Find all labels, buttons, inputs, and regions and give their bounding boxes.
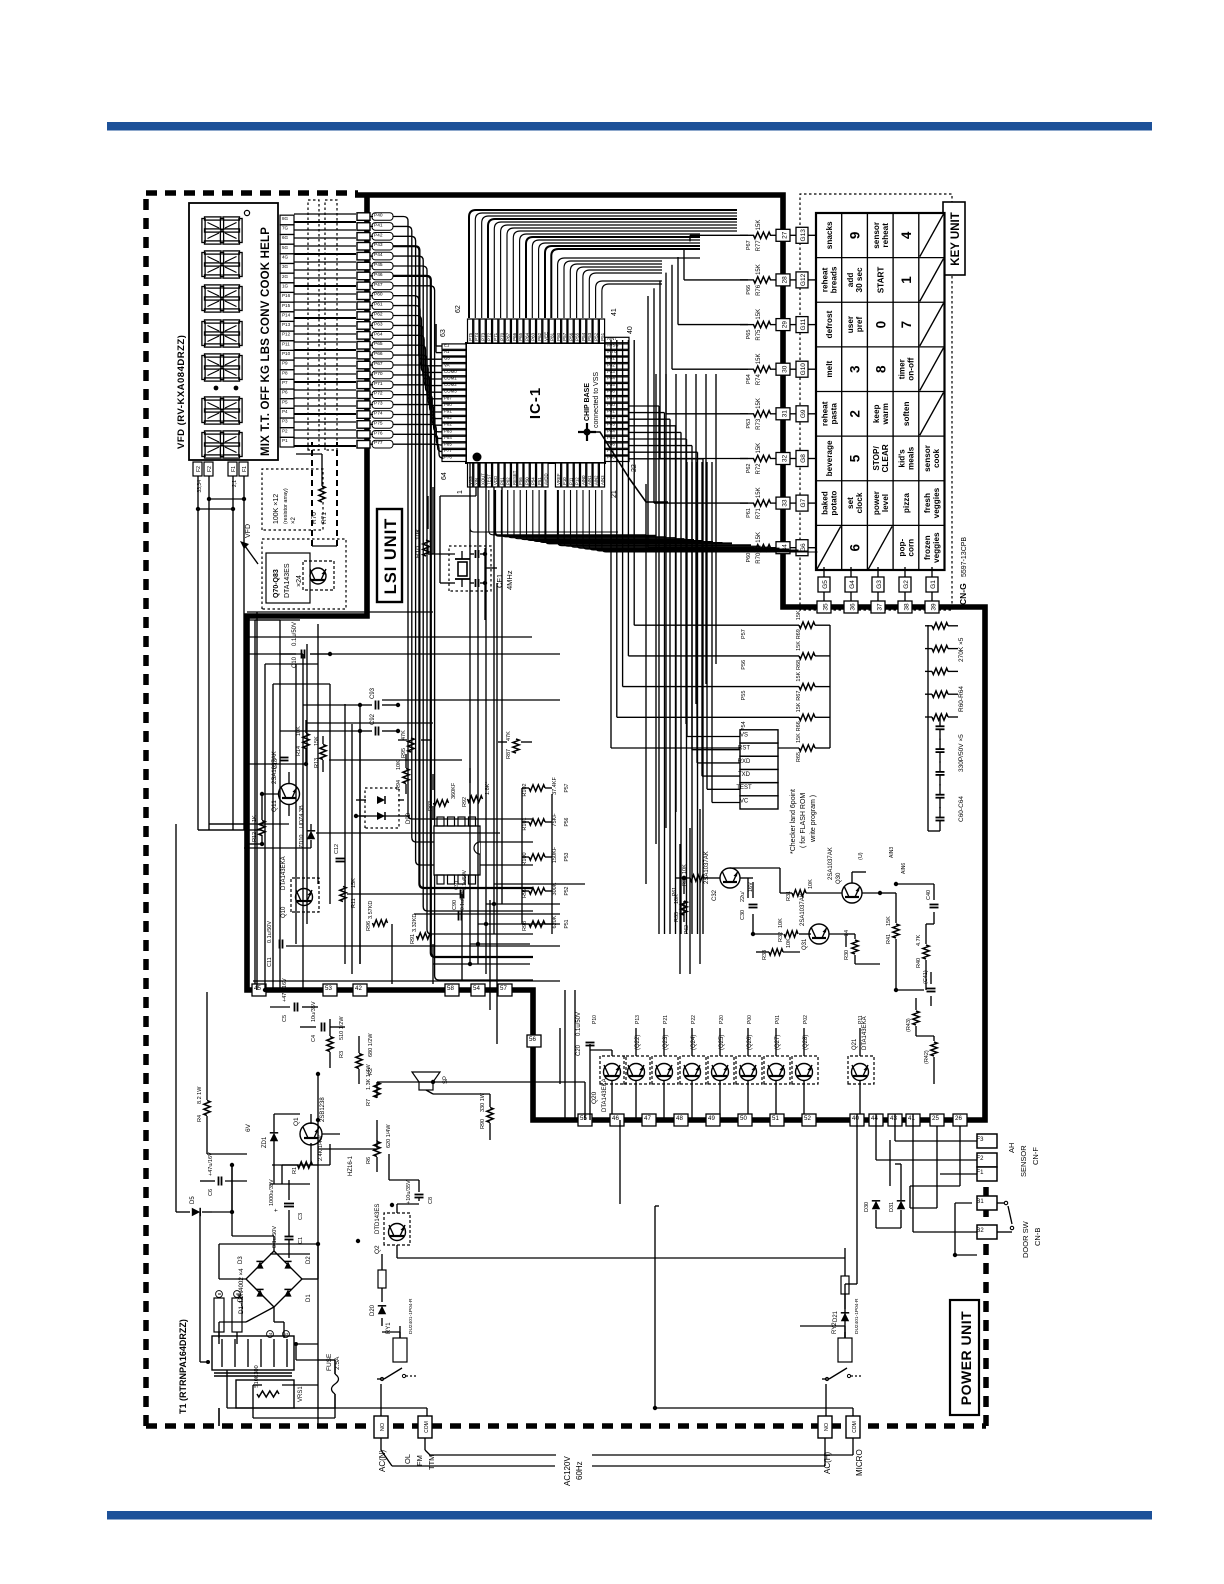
svg-text:10K: 10K: [778, 918, 784, 928]
svg-text:P64: P64: [374, 331, 383, 337]
svg-text:0.1u/50V: 0.1u/50V: [576, 1012, 582, 1036]
svg-text:15K: 15K: [756, 398, 762, 409]
svg-text:P8: P8: [282, 370, 288, 375]
resistor R34 10K: [690, 875, 704, 881]
svg-text:P6: P6: [282, 390, 288, 395]
key blank cell r5c8: [920, 214, 944, 257]
resistor R42: [931, 1042, 937, 1056]
svg-text:F1: F1: [242, 466, 248, 472]
dashed border left edge: [146, 1423, 986, 1429]
svg-text:150KF: 150KF: [552, 846, 558, 863]
connector NO box AC(N): [374, 1416, 388, 1438]
svg-text:R66: R66: [796, 721, 802, 731]
svg-text:R11: R11: [351, 898, 357, 908]
svg-text:R4: R4: [197, 1115, 203, 1122]
svg-text:P54: P54: [531, 477, 536, 485]
svg-text:0.1u/50V: 0.1u/50V: [267, 921, 273, 943]
sensor connector F3: [977, 1134, 997, 1148]
svg-text:pasta: pasta: [829, 403, 838, 425]
svg-text:MIX T.T. OFF KG LBS CONV COOK: MIX T.T. OFF KG LBS CONV COOK HELP: [260, 227, 272, 456]
svg-text:AVDD: AVDD: [543, 473, 548, 485]
svg-text:G4: G4: [849, 580, 856, 589]
svg-text:R67: R67: [796, 691, 802, 701]
wire Q27: [775, 1028, 777, 1056]
svg-text:P56: P56: [518, 477, 523, 485]
svg-text:10K: 10K: [682, 864, 688, 874]
svg-text:R35: R35: [674, 912, 680, 922]
svg-text:C40: C40: [926, 890, 932, 900]
speaker SP: [419, 1082, 433, 1090]
svg-text:C30: C30: [740, 910, 746, 920]
capacitor C11 0.1u/50V: [279, 940, 281, 949]
capacitor C3 1000u/35V: [284, 1206, 294, 1208]
svg-text:DTD143ES: DTD143ES: [375, 1204, 381, 1234]
wire filament F2: [197, 476, 199, 509]
svg-text:Q20: Q20: [591, 1091, 598, 1104]
svg-text:3.57KD: 3.57KD: [368, 901, 374, 919]
bus pin box 33: [776, 497, 790, 509]
svg-text:P20: P20: [719, 1015, 725, 1024]
svg-text:P65: P65: [518, 332, 523, 341]
svg-text:P55: P55: [575, 332, 580, 341]
svg-text:set: set: [846, 497, 855, 509]
sense connector G5: [818, 577, 830, 592]
VFD digit 5: [202, 287, 205, 311]
svg-text:15K: 15K: [756, 532, 762, 543]
svg-text:DTA143EKA: DTA143EKA: [602, 1078, 608, 1112]
svg-text:P12: P12: [575, 477, 580, 485]
strobe connector G11: [796, 317, 808, 333]
filter capacitor block C60-C64 330P/50V x5: [936, 820, 945, 822]
svg-text:C10: C10: [292, 656, 298, 668]
capacitor C1 0.1u/50V: [285, 1239, 294, 1241]
svg-text:63: 63: [440, 329, 447, 337]
long rails IC area to Q30 cluster: [655, 374, 657, 844]
svg-text:44: 44: [871, 1115, 878, 1122]
crystal load capacitors: [475, 579, 477, 587]
wire bundle mid horizontal rails: [306, 644, 308, 924]
svg-text:54: 54: [473, 985, 480, 992]
svg-text:41: 41: [908, 1115, 915, 1122]
transformer T1 primary winding: [212, 1336, 294, 1370]
dashed border: digital programmer circuit outline top edge: [143, 193, 149, 1426]
svg-text:8G: 8G: [282, 216, 289, 221]
resistor R40 4.7K: [923, 945, 929, 959]
svg-text:UDZ4.3B: UDZ4.3B: [299, 805, 305, 828]
resistor R93 360KF: [434, 800, 449, 806]
svg-text:C32: C32: [712, 889, 718, 901]
svg-text:defrost: defrost: [825, 310, 834, 338]
crystal wires to IC: [440, 582, 455, 584]
resistor R92 1.8K: [468, 796, 483, 802]
wire bundle connector pills to IC top pins: [393, 444, 444, 458]
svg-text:Q21: Q21: [852, 1038, 858, 1050]
svg-text:36: 36: [850, 603, 857, 611]
svg-text:G9: G9: [800, 409, 807, 418]
svg-text:R68: R68: [796, 660, 802, 670]
svg-text:AIN0: AIN0: [581, 475, 586, 485]
wire G9 column: [770, 413, 776, 415]
svg-text:P56: P56: [568, 332, 573, 341]
svg-text:P65: P65: [746, 330, 752, 340]
resistor R74 15K: [754, 366, 771, 372]
capacitor C41: [927, 991, 936, 993]
svg-text:P21: P21: [663, 1015, 669, 1024]
bus pin box 32: [776, 453, 790, 465]
svg-text:40: 40: [627, 326, 634, 334]
svg-text:41: 41: [611, 308, 618, 316]
svg-text:P52: P52: [594, 332, 599, 341]
svg-text:P75: P75: [374, 420, 383, 426]
wire jogs key columns to IC verticals: [648, 547, 748, 549]
svg-text:55: 55: [580, 1115, 587, 1122]
svg-text:P71: P71: [374, 381, 383, 387]
capacitor C6 47u/16V: [218, 1177, 220, 1186]
svg-text:P70: P70: [499, 332, 504, 341]
resistor R7 1.3K 1/4W: [374, 1083, 380, 1098]
svg-text:P02: P02: [803, 1015, 809, 1024]
svg-text:62: 62: [455, 305, 462, 313]
svg-text:AIN1: AIN1: [587, 475, 592, 485]
svg-text:G7: G7: [800, 498, 807, 507]
svg-text:30 sec: 30 sec: [855, 267, 864, 292]
svg-text:R7: R7: [366, 1099, 372, 1106]
svg-text:snacks: snacks: [825, 221, 834, 249]
door connector B2: [977, 1225, 997, 1239]
svg-text:COM: COM: [424, 1421, 430, 1433]
svg-text:P10: P10: [562, 477, 567, 485]
svg-text:7G: 7G: [282, 225, 289, 230]
svg-text:38: 38: [904, 603, 911, 611]
svg-text:add: add: [846, 273, 855, 288]
svg-text:P5: P5: [282, 399, 288, 404]
svg-text:OL: OL: [403, 1454, 412, 1464]
VFD pin wires to connector: [294, 445, 356, 447]
svg-text:51: 51: [772, 1115, 779, 1122]
svg-text:clock: clock: [855, 492, 864, 513]
svg-text:D1: D1: [306, 1294, 312, 1302]
wire G11 column: [770, 324, 776, 326]
long rails from VFD filament area down-left: [198, 829, 247, 831]
svg-text:SENSOR: SENSOR: [1019, 1145, 1028, 1177]
svg-text:F1: F1: [976, 1170, 984, 1176]
svg-text:fresh: fresh: [923, 493, 932, 513]
svg-text:meals: meals: [906, 446, 915, 470]
svg-text:R6: R6: [366, 1157, 372, 1164]
svg-text:R65: R65: [796, 752, 802, 762]
svg-text:620 1/4W: 620 1/4W: [386, 1124, 392, 1148]
svg-text:Q30: Q30: [836, 872, 842, 884]
svg-text:C11: C11: [267, 957, 273, 967]
svg-text:30: 30: [782, 365, 789, 373]
key blank cell r5c4: [920, 393, 944, 436]
wire bundle IC right pins to key section: [469, 210, 737, 318]
chip base cross symbol: [586, 423, 588, 441]
svg-text:10K: 10K: [786, 938, 792, 948]
Q20 Q21 wires: [611, 1050, 613, 1056]
svg-text:P47: P47: [374, 282, 383, 288]
bus pin box 34: [776, 542, 790, 554]
svg-text:Q31: Q31: [802, 938, 808, 950]
svg-text:P11: P11: [282, 341, 290, 346]
capacitor C10 0.1u/50V: [301, 650, 303, 659]
svg-text:P57: P57: [564, 783, 570, 792]
svg-text:P66: P66: [746, 285, 752, 295]
svg-text:C90: C90: [452, 900, 458, 910]
svg-text:DU2401-1P04-R: DU2401-1P04-R: [854, 1298, 860, 1334]
svg-text:2G: 2G: [282, 274, 289, 279]
svg-text:D5: D5: [190, 1196, 196, 1204]
svg-text:R94: R94: [396, 780, 402, 790]
svg-text:P81: P81: [550, 332, 555, 341]
svg-text:15K: 15K: [796, 641, 802, 651]
svg-text:C6: C6: [208, 1189, 214, 1196]
resistor R3 510 1/2W: [327, 1037, 333, 1052]
VFD digit 6: [202, 253, 205, 277]
wire stubs connector to pills: [370, 443, 373, 445]
svg-text:4MHz: 4MHz: [505, 570, 514, 590]
svg-text:6V: 6V: [245, 1123, 252, 1132]
svg-text:42: 42: [355, 985, 362, 992]
transistor Q28 DTA143EKA: [792, 1056, 818, 1084]
resistor R30 24: [852, 940, 858, 954]
svg-text:P80: P80: [556, 332, 561, 341]
svg-text:P46: P46: [374, 272, 383, 278]
svg-text:R76: R76: [756, 284, 762, 296]
svg-text:P60: P60: [746, 553, 752, 563]
svg-text:47K: 47K: [506, 731, 512, 741]
wires resistor cap rows: [928, 830, 940, 832]
svg-text:D21: D21: [833, 1310, 839, 1322]
svg-text:4G: 4G: [282, 254, 289, 259]
relay RY1 coil box: [393, 1338, 407, 1362]
transistor Q32 2SA1037AK: [720, 868, 740, 888]
svg-text:3G: 3G: [282, 264, 289, 269]
svg-text:F3: F3: [976, 1137, 984, 1143]
svg-text:P4: P4: [282, 409, 288, 414]
svg-text:R73: R73: [756, 418, 762, 430]
svg-text:HZ16-1: HZ16-1: [348, 1155, 354, 1176]
transistor Q21 DTA143EKA: [848, 1056, 874, 1084]
svg-text:P67: P67: [374, 361, 383, 367]
transformer core: [214, 1375, 292, 1377]
bus pin box 28: [776, 274, 790, 286]
svg-text:P72: P72: [487, 332, 492, 341]
svg-text:ZD10: ZD10: [299, 835, 305, 848]
diode D31: [897, 1201, 905, 1209]
svg-text:D3: D3: [238, 1256, 244, 1264]
svg-text:VFD (RV-KXA084DRZZ): VFD (RV-KXA084DRZZ): [176, 335, 187, 449]
svg-text:P52: P52: [564, 886, 570, 895]
svg-text:7: 7: [899, 321, 914, 329]
svg-text:DTA143ES: DTA143ES: [284, 563, 291, 598]
svg-text:TXD: TXD: [738, 772, 751, 778]
svg-text:2SA1037AK: 2SA1037AK: [704, 851, 710, 884]
svg-text:4: 4: [899, 231, 914, 239]
svg-text:P77: P77: [374, 440, 383, 446]
wires IC right pins to sense resistors: [610, 340, 612, 748]
svg-text:5: 5: [848, 454, 863, 462]
VFD digit 3: [202, 356, 205, 380]
svg-text:15K: 15K: [756, 487, 762, 498]
svg-text:F2: F2: [196, 466, 202, 472]
svg-text:Q2: Q2: [374, 1245, 381, 1254]
svg-text:C5: C5: [282, 1015, 288, 1022]
svg-text:TEST: TEST: [487, 474, 492, 485]
resistor R13 15K: [320, 745, 326, 760]
svg-text:D31: D31: [889, 1202, 895, 1212]
capacitor C40: [930, 907, 939, 909]
wire R69: [740, 624, 799, 626]
svg-text:15K: 15K: [796, 610, 802, 620]
svg-text:P22: P22: [691, 1015, 697, 1024]
svg-text:P7: P7: [282, 380, 288, 385]
connector wire joints: [953, 1253, 957, 1257]
dashed bus wire 2: [336, 442, 338, 546]
svg-text:MICRO: MICRO: [855, 1449, 864, 1476]
svg-text:1.3K 1/4W: 1.3K 1/4W: [366, 1064, 372, 1090]
svg-text:R41: R41: [886, 934, 892, 944]
svg-text:SP: SP: [443, 1076, 449, 1084]
VFD arrow: [240, 541, 249, 549]
svg-text:breads: breads: [829, 266, 838, 293]
svg-text:Q1: Q1: [293, 1117, 300, 1126]
resistor R77 15K: [754, 232, 771, 238]
svg-text:connected to VSS: connected to VSS: [593, 372, 600, 428]
svg-text:P50: P50: [524, 477, 529, 485]
wire Q28: [803, 1028, 805, 1056]
svg-text:DOOR SW: DOOR SW: [1021, 1220, 1030, 1258]
svg-text:G3: G3: [876, 580, 883, 589]
svg-text:28: 28: [782, 276, 789, 284]
svg-text:D2: D2: [306, 1256, 312, 1264]
svg-text:VRS1: VRS1: [298, 1386, 304, 1402]
VFD degree mark: [244, 210, 249, 215]
sense connector G4: [845, 577, 857, 592]
svg-text:15K: 15K: [796, 733, 802, 743]
KEY UNIT title box: [943, 202, 965, 275]
svg-text:T1 (RTRNPA164DRZZ): T1 (RTRNPA164DRZZ): [178, 1319, 188, 1414]
svg-text:P12: P12: [282, 332, 291, 337]
varistor VRS1 box: [236, 1380, 294, 1408]
svg-text:49: 49: [708, 1115, 715, 1122]
svg-text:10K: 10K: [674, 894, 680, 904]
svg-text:R74: R74: [756, 374, 762, 386]
resistor R22 box: [841, 1276, 849, 1294]
strobe connector G9: [796, 406, 808, 422]
resistor R43: [913, 1011, 919, 1025]
svg-text:P53: P53: [564, 852, 570, 861]
svg-text:680 1/2W: 680 1/2W: [368, 1033, 374, 1057]
svg-text:0: 0: [873, 321, 888, 329]
sense connector G1: [926, 577, 938, 592]
buzzer cluster wires: [704, 877, 720, 879]
key blank cell r1c1: [817, 526, 841, 569]
svg-text:+47u/16V: +47u/16V: [208, 1152, 214, 1176]
svg-text:P65: P65: [374, 341, 383, 347]
IC-1 top pin row: [442, 456, 466, 461]
svg-text:P53: P53: [587, 332, 592, 341]
svg-text:P10: P10: [282, 351, 291, 356]
svg-text:AIN7: AIN7: [607, 336, 617, 341]
wire R68: [740, 655, 799, 657]
svg-text:DTA143EKA: DTA143EKA: [281, 856, 287, 890]
svg-text:10u/35V: 10u/35V: [311, 1001, 317, 1022]
POWER UNIT title box: [950, 1300, 979, 1415]
mid rails 2: [264, 664, 266, 990]
svg-text:P72: P72: [374, 391, 383, 397]
svg-text:R100: R100: [522, 852, 528, 865]
svg-text:P15: P15: [282, 303, 291, 308]
capacitor C13: [280, 760, 289, 762]
svg-text:POWER UNIT: POWER UNIT: [958, 1311, 974, 1405]
capacitor C30 22u/16V: [749, 907, 758, 909]
svg-text:P57: P57: [562, 332, 567, 341]
svg-text:IC-1: IC-1: [527, 387, 544, 419]
svg-text:R102: R102: [522, 783, 528, 796]
resistor R75 15K: [754, 321, 771, 327]
VFD colon dots: [214, 386, 219, 391]
svg-text:47: 47: [644, 1115, 651, 1122]
svg-text:warm: warm: [881, 403, 890, 425]
svg-text:10K: 10K: [396, 760, 402, 770]
sense connector G3: [872, 577, 884, 592]
key blank cell r3c1: [868, 526, 892, 569]
transistor Q26 DTA143EKA: [736, 1056, 762, 1084]
resistor R33 10K: [769, 949, 783, 955]
speaker drive rails: [584, 1082, 586, 1120]
svg-text:R72: R72: [756, 463, 762, 475]
svg-text:CHIP BASE: CHIP BASE: [584, 383, 591, 421]
svg-text:C8: C8: [428, 1197, 434, 1204]
key blank cell r5c5: [920, 348, 944, 391]
diode D30: [872, 1201, 880, 1209]
IC-1 right pin row: [468, 319, 473, 343]
svg-text:VFD: VFD: [245, 524, 252, 538]
footer rule bar: [107, 1511, 1152, 1520]
svg-text:P51: P51: [564, 919, 570, 928]
wire Q22: [635, 1028, 637, 1056]
svg-text:52: 52: [804, 1115, 811, 1122]
dual diode D90 dotted box: [365, 788, 399, 828]
capacitor C12: [336, 861, 345, 863]
svg-text:R13: R13: [314, 758, 320, 768]
svg-text:6: 6: [848, 543, 863, 551]
svg-text:510 1/2W: 510 1/2W: [339, 1016, 345, 1040]
dashed wire group box 1: [308, 200, 319, 450]
svg-text:Q11: Q11: [271, 800, 278, 812]
wire Q23: [663, 1028, 665, 1056]
svg-text:37.4KF: 37.4KF: [552, 776, 558, 794]
svg-text:R3: R3: [339, 1051, 345, 1058]
wire Q25: [719, 1028, 721, 1056]
resistor R2 680 1/2W: [356, 1054, 362, 1069]
svg-text:VC: VC: [740, 798, 749, 804]
svg-text:9: 9: [848, 232, 863, 240]
svg-text:VDD: VDD: [493, 476, 498, 485]
transistor Q2 DTD143ES dashed box: [384, 1213, 410, 1245]
svg-text:P67: P67: [746, 240, 752, 250]
svg-text:D1-4:1N4002 ×4: D1-4:1N4002 ×4: [238, 1268, 245, 1314]
dashed border bottom edge (left part): [983, 1184, 989, 1426]
svg-text:8: 8: [873, 365, 888, 373]
bus pin box 36: [844, 601, 858, 613]
svg-text:AIN2: AIN2: [594, 475, 599, 485]
svg-text:P63: P63: [746, 419, 752, 429]
svg-text:46: 46: [612, 1115, 619, 1122]
svg-text:power: power: [872, 490, 881, 515]
VFD digit 1: [202, 433, 205, 457]
